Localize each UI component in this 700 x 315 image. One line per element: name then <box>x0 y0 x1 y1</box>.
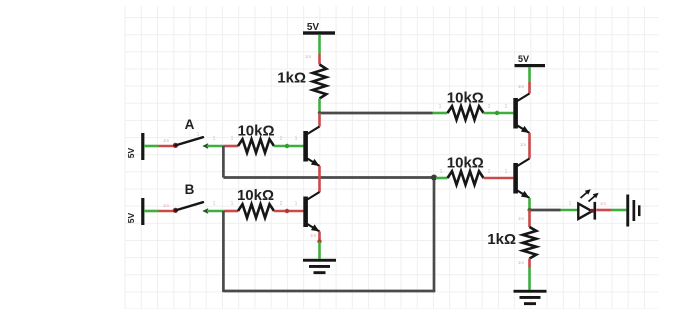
svg-text:2: 2 <box>280 201 283 207</box>
wire node A down <box>222 146 225 178</box>
resistor RA 10kΩ (input A) <box>238 139 274 153</box>
svg-text:1: 1 <box>505 104 508 110</box>
voltage rail 5V input B <box>141 198 144 225</box>
switch A right post arrow <box>202 143 208 148</box>
wire switch A to node (green) <box>207 145 223 148</box>
terminal dot (red) <box>285 209 289 213</box>
svg-text:A: A <box>185 117 195 132</box>
svg-text:1m: 1m <box>163 138 170 143</box>
transistor Q2 (NPN) <box>303 192 319 232</box>
wire right 5V rail down (green) <box>528 67 531 82</box>
resistor RB 10kΩ (input B) <box>238 204 274 218</box>
svg-text:2: 2 <box>280 136 283 142</box>
resistor R1 1kΩ pull-up <box>313 65 327 99</box>
svg-text:1m: 1m <box>600 201 607 206</box>
resistor R3 10kΩ (to Q3 base) <box>448 106 484 120</box>
svg-text:1: 1 <box>197 132 200 138</box>
wire R1 to output node (green) <box>318 99 321 114</box>
svg-text:5V: 5V <box>126 147 136 158</box>
svg-text:B: B <box>185 182 195 197</box>
wire to switch A pivot (red) <box>159 145 176 148</box>
wire R4 to Q4 base (red) <box>484 177 514 180</box>
svg-text:5V: 5V <box>126 212 136 223</box>
power rail 5V (top middle) <box>303 31 335 34</box>
power rail 5V (right) <box>515 64 546 67</box>
svg-text:1m: 1m <box>518 84 525 89</box>
svg-text:1m: 1m <box>163 203 170 208</box>
switch B (open lever) <box>176 202 204 210</box>
svg-text:1: 1 <box>213 201 216 207</box>
transistor Q4 (NPN) <box>513 159 529 199</box>
wire to right ground (green) <box>611 209 626 212</box>
transistor Q1 (NPN) <box>303 127 319 167</box>
svg-text:1m: 1m <box>310 233 317 238</box>
wire A rail to switch (green) <box>144 145 159 148</box>
svg-text:10kΩ: 10kΩ <box>237 187 274 204</box>
wire output node to Q1 collector (red) <box>318 113 321 127</box>
wire switch B to node (green) <box>207 210 223 213</box>
svg-text:10kΩ: 10kΩ <box>447 155 484 172</box>
wire RB to Q2 base (red) <box>274 210 304 213</box>
ground (right of LED, rotated) <box>626 195 640 227</box>
wire Q3 emitter to Q4 collector (red) <box>528 133 531 159</box>
junction output node dot <box>528 208 532 212</box>
wire node B down <box>222 211 225 291</box>
wire to bottom ground (green) <box>528 268 531 290</box>
wire node A to node D (horizontal) <box>223 176 434 179</box>
LED D1 <box>578 189 598 219</box>
switch A (open lever) <box>176 137 204 145</box>
wire NAND output to R3 (horizontal) <box>320 112 433 115</box>
wire node to resistor RA (red) <box>223 145 238 148</box>
terminal dot (red) <box>317 239 321 243</box>
wire Q4 emitter to output node (green) <box>528 198 531 210</box>
wire Q2 emitter down (red) <box>318 232 321 242</box>
svg-text:1: 1 <box>440 169 443 175</box>
junction dot switch B pivot <box>173 208 178 213</box>
wire B rail to switch (green) <box>144 210 159 213</box>
svg-text:2: 2 <box>488 169 491 175</box>
wire output node to LED (gray) <box>530 209 561 212</box>
svg-text:1kΩ: 1kΩ <box>277 70 306 87</box>
svg-text:1m: 1m <box>518 260 525 265</box>
junction NAND output node <box>318 111 321 114</box>
wire node to resistor RB (red) <box>223 210 238 213</box>
svg-text:1m: 1m <box>520 142 527 147</box>
ground (left, below Q2) <box>303 259 336 274</box>
svg-text:1: 1 <box>439 104 442 110</box>
transistor Q3 (NPN) <box>513 94 529 134</box>
svg-text:1: 1 <box>569 201 572 207</box>
wire R2 down (red) <box>528 259 531 268</box>
junction dot switch A pivot <box>173 143 178 148</box>
wire up to node D <box>433 178 436 292</box>
svg-text:10kΩ: 10kΩ <box>237 123 274 140</box>
wire node D to R4 (green) <box>436 177 448 180</box>
svg-text:1kΩ: 1kΩ <box>487 231 516 248</box>
svg-text:1: 1 <box>295 201 298 207</box>
wire LED cathode (red) <box>596 209 611 212</box>
svg-text:1: 1 <box>295 136 298 142</box>
wire to switch B pivot (red) <box>159 210 176 213</box>
svg-text:10kΩ: 10kΩ <box>447 90 484 107</box>
ground (bottom right) <box>514 290 547 305</box>
svg-text:1m: 1m <box>305 54 312 59</box>
wire to Q3 collector (red) <box>528 82 531 94</box>
svg-text:1: 1 <box>231 136 234 142</box>
wire RA to Q1 base (green) <box>274 145 304 148</box>
wire to LED anode (green) <box>561 209 578 212</box>
terminal dot (green) <box>285 144 289 148</box>
resistor R4 10kΩ (to Q4 base) <box>448 171 484 185</box>
wire node to R3 (green) <box>433 112 448 115</box>
wire 5V rail down (green) <box>318 35 321 54</box>
svg-text:1: 1 <box>213 136 216 142</box>
terminal dot (green) <box>495 111 499 115</box>
svg-text:2: 2 <box>488 104 491 110</box>
voltage rail 5V input A <box>141 133 144 160</box>
wire output node down to R2 (red) <box>528 210 531 227</box>
LED cathode junction dot <box>590 209 594 213</box>
svg-text:1m: 1m <box>518 216 525 221</box>
wire R3 to Q3 base (green) <box>484 112 514 115</box>
junction node D dot <box>431 175 437 181</box>
wire bottom run <box>223 290 434 293</box>
wire to ground (green) <box>318 242 321 259</box>
svg-text:5V: 5V <box>518 54 529 64</box>
svg-text:1: 1 <box>505 169 508 175</box>
wire Q1 emitter to Q2 collector (red) <box>318 166 321 192</box>
grid background <box>125 6 659 309</box>
wire to R1 (red) <box>318 54 321 65</box>
svg-text:1: 1 <box>231 201 234 207</box>
resistor R2 1kΩ (pull-down) <box>523 227 537 259</box>
svg-text:5V: 5V <box>307 22 320 33</box>
switch B right post arrow <box>202 208 208 213</box>
